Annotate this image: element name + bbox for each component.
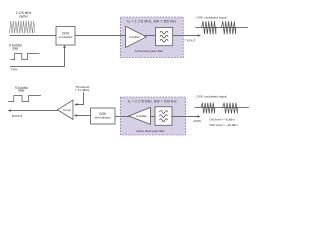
svg-text:OOK modulated signal: OOK modulated signal [197, 95, 228, 99]
svg-text:Active band-pass filter: Active band-pass filter [136, 129, 164, 133]
svg-text:Active band-pass filter: Active band-pass filter [135, 49, 163, 53]
svg-text:Amplifier: Amplifier [136, 114, 147, 118]
svg-text:OOK modulated signal: OOK modulated signal [197, 15, 228, 19]
svg-text:TXOUT: TXOUT [185, 39, 196, 43]
svg-text:fC = 2.176 MHz, BW = 200 kHz: fC = 2.176 MHz, BW = 200 kHz [128, 100, 177, 105]
svg-text:fC = 2.176 MHz, BW = 350 kHz: fC = 2.176 MHz, BW = 350 kHz [127, 19, 176, 24]
svg-text:carrier: carrier [19, 15, 29, 19]
svg-text:data: data [12, 46, 18, 50]
svg-text:RXIN: RXIN [194, 119, 201, 123]
svg-text:modulator: modulator [59, 35, 73, 39]
svg-text:ON level = +5 dBm: ON level = +5 dBm [209, 118, 235, 122]
svg-text:RXOUT: RXOUT [12, 114, 23, 118]
svg-text:(−11 dBm): (−11 dBm) [75, 88, 89, 92]
svg-text:data: data [18, 89, 24, 93]
svg-text:demodulator: demodulator [94, 115, 111, 119]
svg-text:Amplifier: Amplifier [129, 35, 140, 39]
svg-text:Comp: Comp [63, 108, 71, 112]
svg-text:TXIN: TXIN [11, 68, 18, 72]
svg-text:OFF level = −40 dBm: OFF level = −40 dBm [209, 123, 238, 127]
